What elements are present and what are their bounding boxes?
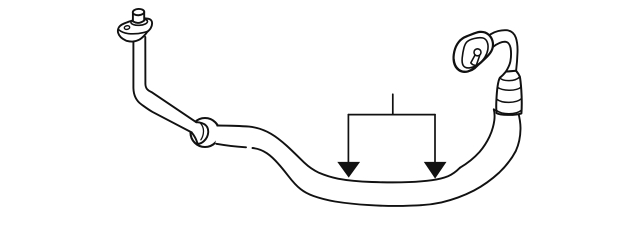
tube end inner crease: [200, 122, 204, 140]
end fitting block: [454, 32, 493, 72]
keyhole mark circle: [474, 49, 481, 56]
callout bracket top stem: [392, 94, 394, 114]
pipe elbow outer line: [491, 30, 518, 71]
hose end cap arc at ferrule: [494, 109, 518, 112]
tube right edge: [145, 37, 196, 122]
fitting cap band line: [454, 60, 478, 72]
stud (white fill body): [133, 10, 144, 23]
arrow 1 stem: [347, 115, 349, 164]
keyhole mark tail: [471, 55, 480, 65]
hose body fill: [215, 109, 520, 206]
callout bracket horizontal: [348, 114, 435, 116]
metal tube from flange (white fill): [133, 36, 208, 144]
flange bolt hole: [124, 25, 130, 30]
arrow 1 head: [337, 162, 360, 178]
hose bottom edge left of gap: [216, 144, 246, 148]
arrow 2 head: [424, 162, 447, 179]
tube left edge: [133, 41, 191, 132]
stud top ellipse: [133, 9, 145, 16]
ferrule bottom band: [497, 110, 522, 114]
fitting top-face inner outline: [462, 38, 488, 68]
stud bottom arc: [133, 21, 144, 23]
crimp ferrule (white fill): [496, 71, 521, 115]
ferrule band 2: [497, 87, 521, 90]
pipe elbow inner line: [493, 42, 511, 72]
hose outer edge right: [421, 112, 521, 205]
stud right side: [143, 12, 145, 21]
stud base collar: [131, 18, 148, 26]
hose inner bend edge: [460, 109, 495, 167]
ferrule shoulder band: [500, 77, 520, 81]
pipe elbow (white fill): [491, 30, 518, 71]
arrow 2 stem: [434, 115, 436, 164]
mounting flange plate: [118, 18, 152, 41]
tube end hook: [192, 122, 209, 144]
grommet ring: [191, 118, 220, 147]
stud left side: [132, 12, 134, 21]
ferrule band 3: [496, 99, 521, 103]
flange top-face separation line: [119, 30, 148, 34]
hose bottom edge: [253, 148, 422, 206]
hose top edge: [217, 126, 460, 183]
